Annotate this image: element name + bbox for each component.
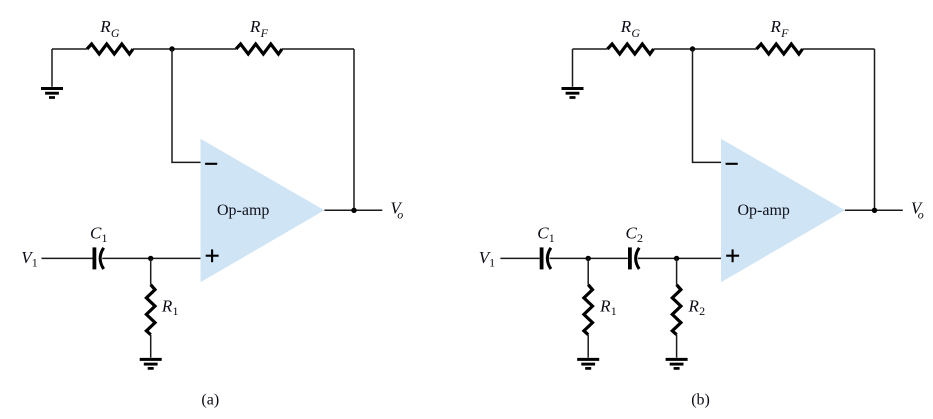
wire right vertical to output [353,49,355,210]
capacitor C1 (a) [94,247,103,269]
svg-text:R: R [620,17,632,36]
wire top-left ground stub [51,49,53,87]
svg-text:1: 1 [32,255,38,269]
resistor R1b [584,285,593,335]
wire C2 to plus input (b) [638,257,721,259]
wire R1 top stub [150,258,152,284]
svg-text:Op-amp: Op-amp [217,202,269,219]
wire feedback to minus input [172,49,201,162]
svg-text:C: C [537,224,549,243]
svg-text:R: R [249,17,261,36]
svg-text:2: 2 [699,304,705,318]
svg-text:o: o [918,208,924,222]
wire right vertical to output [874,49,876,210]
pin minus [726,163,738,165]
svg-text:G: G [631,26,640,40]
node output junction [872,208,877,213]
wire ground to RG [573,48,608,50]
resistor RG [87,44,133,54]
wire top-left ground stub [572,49,574,87]
resistor RF [236,44,282,54]
wire RG to RF [654,48,757,50]
node 2 (b) [674,256,679,261]
ground (top 1) [41,89,63,98]
wire RF to right corner [803,48,875,50]
wire RG to RF [133,48,236,50]
wire C1 to plus input (a) [102,257,200,259]
wire C1 to node1 (b) [550,257,628,259]
ground (R1 (a)) [140,359,162,368]
pin minus [205,163,217,165]
svg-text:C: C [626,224,638,243]
node output junction [351,208,356,213]
node input junction (a) [148,256,153,261]
svg-text:R: R [599,296,611,315]
svg-text:1: 1 [173,304,179,318]
capacitor C2 (b) [630,247,639,269]
op-amp U1 [201,139,325,283]
svg-text:F: F [260,26,269,40]
wire ground to RG [52,48,87,50]
wire feedback to minus input [693,49,722,162]
svg-text:C: C [90,224,102,243]
resistor RG [608,44,654,54]
resistor R1 [146,285,155,335]
wire R1 bottom stub [150,335,152,358]
ground (top 2) [562,89,584,98]
wire output [845,209,903,211]
node junction top [169,46,174,51]
svg-text:2: 2 [637,231,643,245]
resistor RF [757,44,803,54]
wire R2b top stub [676,258,678,284]
svg-text:(b): (b) [691,391,710,408]
wire V1 to C1 (a) [42,257,93,259]
svg-text:1: 1 [549,231,555,245]
node junction top [690,46,695,51]
pin plus [726,255,739,257]
wire R2b bottom stub [676,335,678,358]
svg-text:o: o [397,208,403,222]
op-amp U2 [721,139,845,283]
wire V1 to C1 (b) [500,257,539,259]
svg-text:(a): (a) [201,391,219,408]
capacitor C1 (b) [542,247,551,269]
svg-text:1: 1 [489,255,495,269]
svg-text:R: R [688,296,700,315]
svg-text:1: 1 [102,231,108,245]
svg-text:R: R [770,17,782,36]
wire R1b bottom stub [587,335,589,358]
svg-text:R: R [161,296,173,315]
ground (R1 (b)) [577,359,599,368]
node 1 (b) [586,256,591,261]
wire output [324,209,382,211]
resistor R2b [672,285,681,335]
ground (R2 (b)) [666,359,688,368]
svg-text:Op-amp: Op-amp [738,202,790,219]
svg-text:F: F [780,26,789,40]
svg-text:1: 1 [611,304,617,318]
wire R1b top stub [587,258,589,284]
svg-text:G: G [111,26,120,40]
wire RF to right corner [282,48,354,50]
svg-text:R: R [99,17,111,36]
pin plus [206,255,219,257]
